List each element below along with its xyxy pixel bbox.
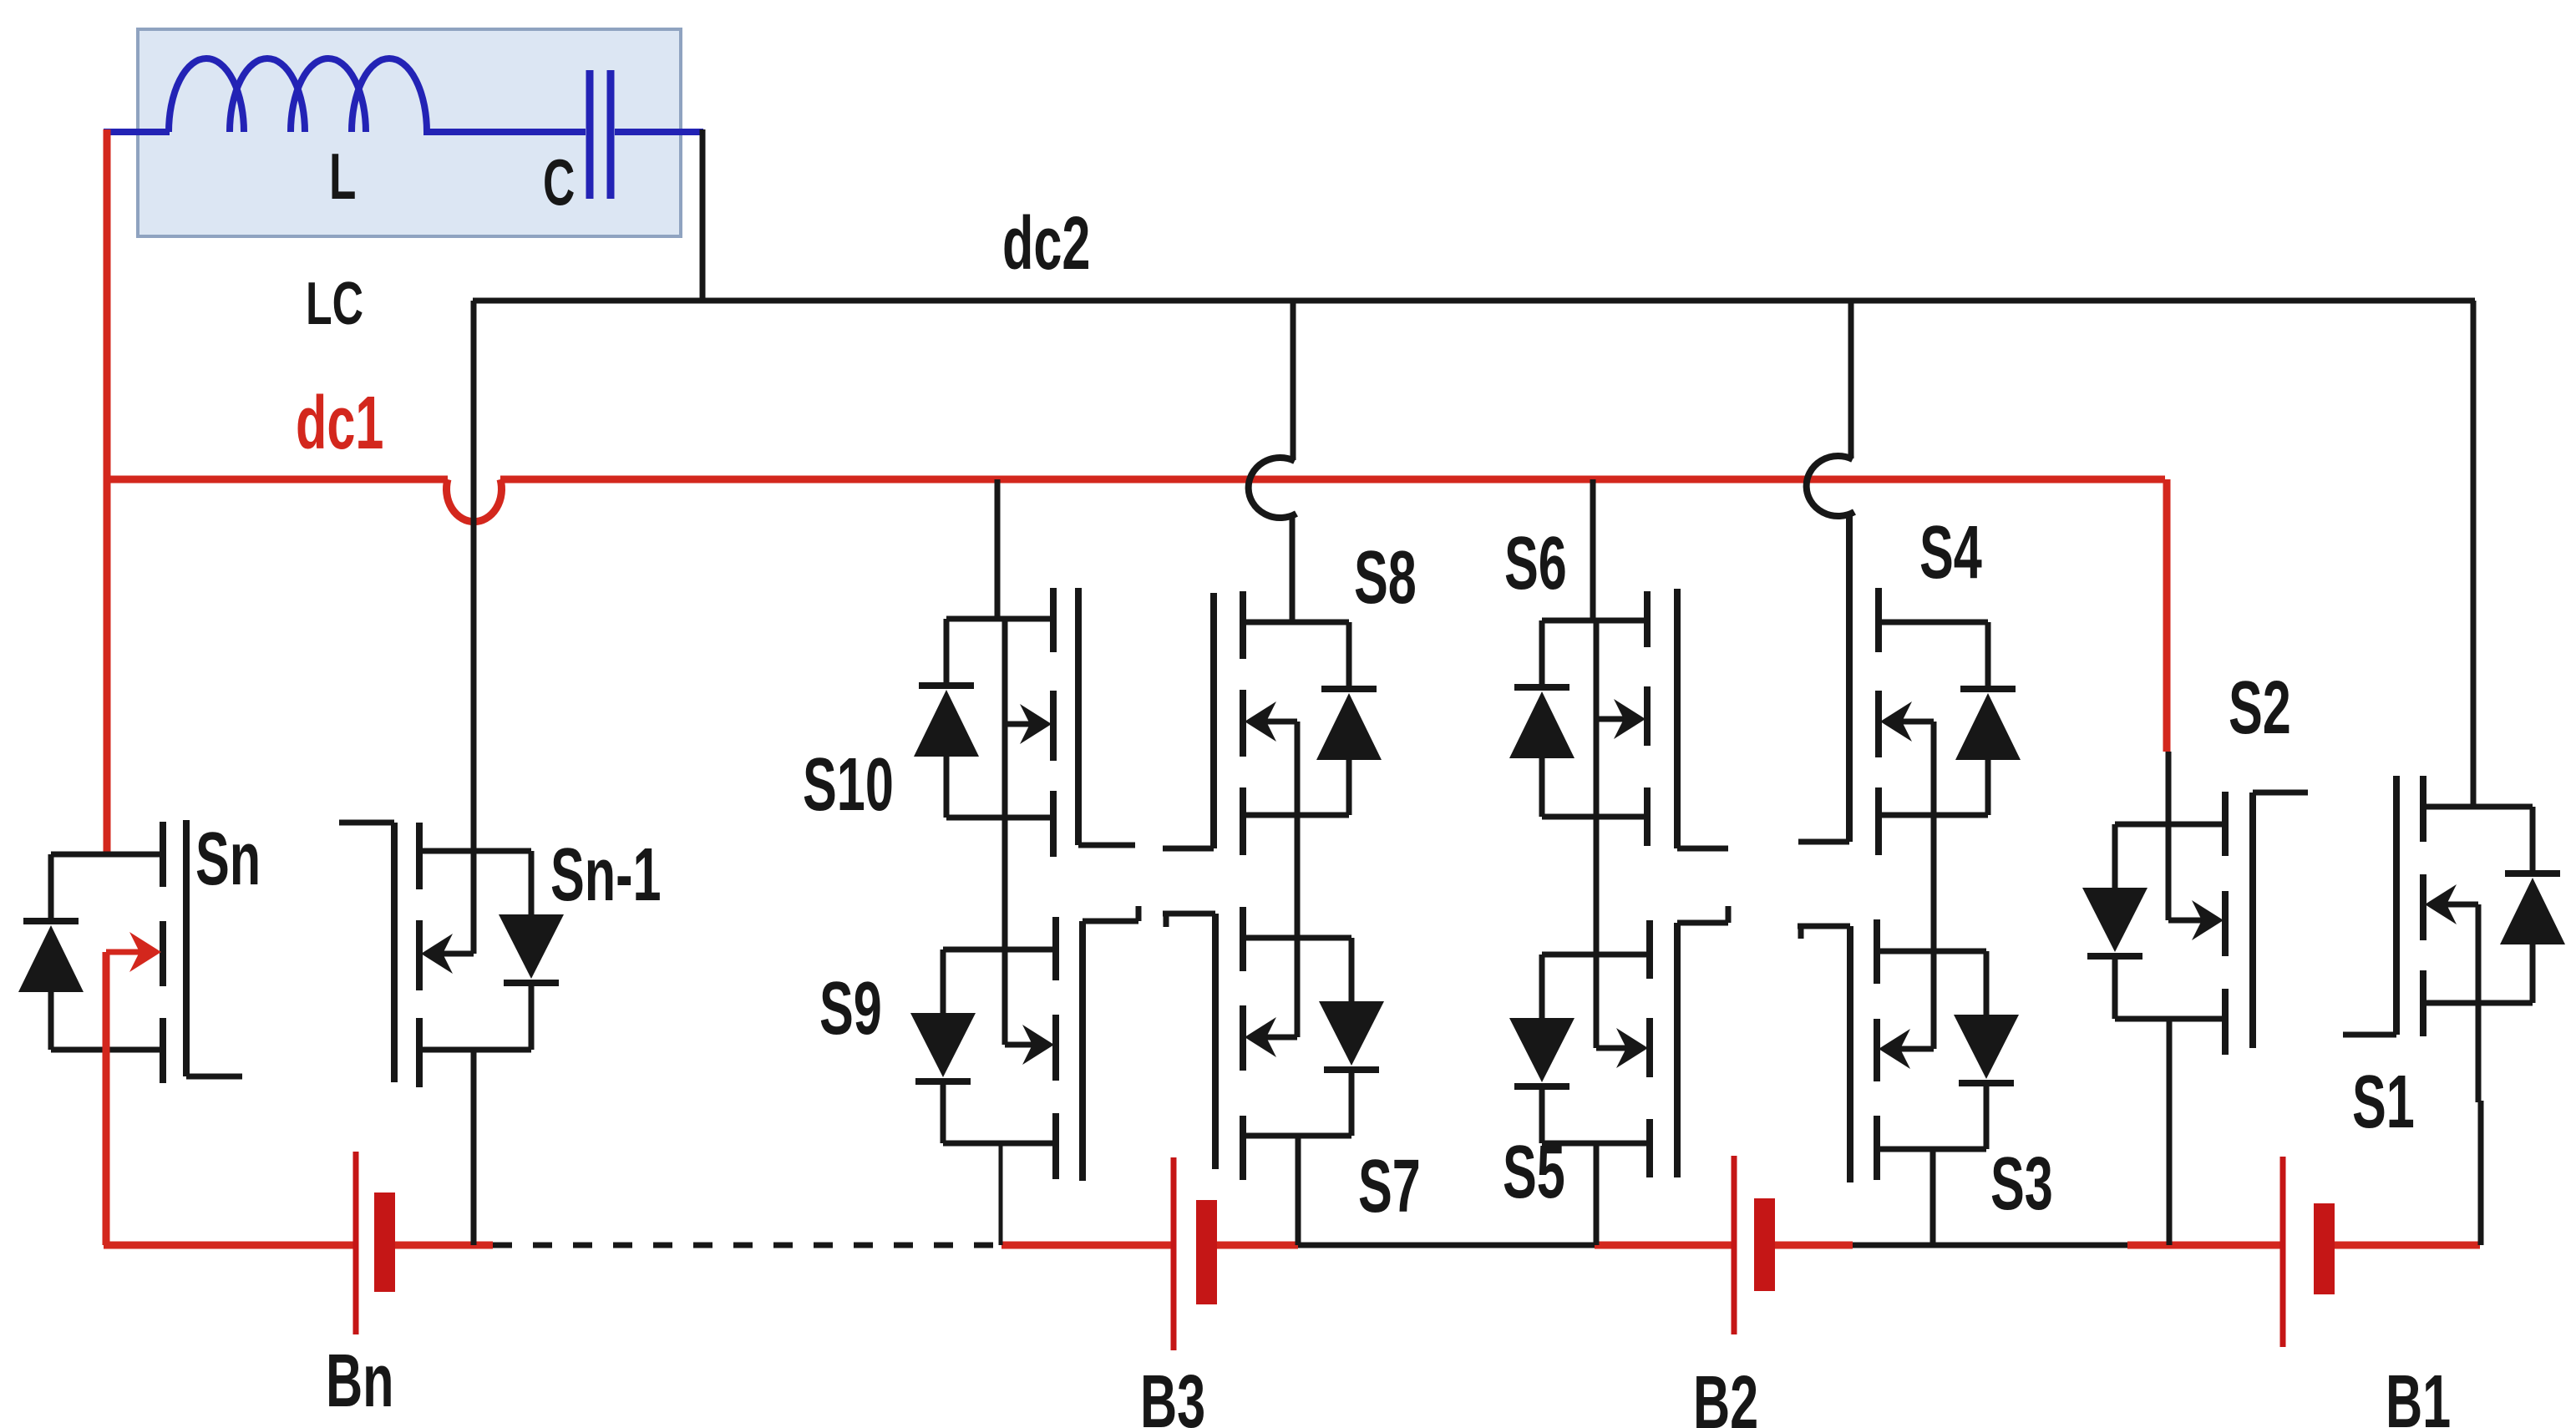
wire dc1 to S10 drain bbox=[995, 479, 1001, 619]
svg-text:C: C bbox=[543, 147, 575, 220]
battery B3 bbox=[1171, 1157, 1177, 1350]
transistor Sn bbox=[51, 852, 163, 858]
body diode of S5 bbox=[1539, 955, 1545, 1018]
wire S8 to S7 mid vertical bbox=[1295, 722, 1301, 1037]
inductor L bbox=[169, 58, 427, 132]
svg-text:B3: B3 bbox=[1140, 1360, 1205, 1428]
body diode of S10 bbox=[944, 619, 950, 686]
body diode of S3 bbox=[1984, 951, 1990, 1015]
svg-text:B2: B2 bbox=[1693, 1360, 1758, 1428]
wire dc1 to S6 drain bbox=[1590, 479, 1596, 620]
wire dc1 bus left bbox=[107, 476, 448, 484]
wire S5 gate lead tick bbox=[1726, 906, 1732, 923]
hop of S8 wire over dc1 bbox=[1249, 458, 1296, 518]
body diode of S7 bbox=[1349, 938, 1355, 1001]
wire bottom bus red 8 bbox=[2315, 1242, 2480, 1249]
svg-text:S2: S2 bbox=[2229, 666, 2291, 750]
wire dc1 bus right bbox=[500, 476, 2165, 484]
svg-text:LC: LC bbox=[306, 271, 363, 337]
wire Sn body red elbow down bbox=[103, 952, 110, 1245]
wire S9 gate lead tick bbox=[1136, 906, 1142, 921]
svg-text:dc2: dc2 bbox=[1002, 201, 1090, 286]
wire dc2 to S4 upper bbox=[1848, 301, 1854, 458]
wire dc1 hop over Sn-1 line bbox=[447, 479, 502, 522]
wire red left vertical (dc1 feed) bbox=[104, 129, 111, 857]
transistor S3 bbox=[1877, 949, 1986, 955]
wire blue right bbox=[615, 129, 703, 135]
wire bottom bus red 3 bbox=[1001, 1242, 1172, 1249]
svg-text:S1: S1 bbox=[2352, 1060, 2415, 1144]
body diode of Sn bbox=[48, 854, 54, 921]
wire S1 body to bus upper bbox=[2476, 904, 2482, 1102]
svg-text:S7: S7 bbox=[1358, 1144, 1421, 1228]
svg-text:S9: S9 bbox=[819, 966, 882, 1051]
wire S1 body to bus lower bbox=[2478, 1101, 2484, 1245]
wire bottom bus black 1 bbox=[1298, 1243, 1595, 1248]
svg-text:S10: S10 bbox=[803, 742, 894, 827]
wire from LC box to dc2 bus bbox=[700, 129, 706, 301]
transistor S7 bbox=[1243, 935, 1351, 941]
svg-text:S6: S6 bbox=[1504, 521, 1567, 605]
wire bottom bus red 5 bbox=[1595, 1242, 1732, 1249]
svg-text:B1: B1 bbox=[2386, 1360, 2451, 1428]
wire bottom bus red 4 bbox=[1196, 1242, 1298, 1249]
wire bottom bus red 2 bbox=[376, 1242, 493, 1249]
battery B1 bbox=[2280, 1157, 2286, 1347]
hop of S4 wire over dc1 bbox=[1807, 456, 1854, 516]
wire S2 source to bus bbox=[2167, 1019, 2173, 1245]
wire S9 source to bus bbox=[999, 1143, 1003, 1245]
wire S5 source to bus bbox=[1594, 1143, 1600, 1245]
wire blue left bbox=[104, 129, 170, 135]
wire dc2 to S8 drain upper bbox=[1291, 301, 1296, 460]
body diode of S4 bbox=[1985, 622, 1991, 689]
wire blue middle bbox=[423, 129, 586, 135]
wire Sn-1 source to bus bbox=[471, 1050, 477, 1245]
body diode of Sn-1 bbox=[529, 851, 535, 914]
wire dc2 to S8 drain lower bbox=[1290, 515, 1296, 622]
wire dc1 right drop red bbox=[2163, 479, 2171, 752]
wire bottom bus red 6 bbox=[1756, 1242, 1853, 1249]
body diode of S6 bbox=[1539, 620, 1545, 687]
wire S7 source to bus bbox=[1296, 1136, 1301, 1245]
transistor S10 bbox=[946, 616, 1053, 622]
wire S3 source to bus bbox=[1930, 1149, 1936, 1245]
svg-text:Sn-1: Sn-1 bbox=[550, 833, 662, 917]
body diode of S2 bbox=[2112, 824, 2118, 888]
transistor S4 bbox=[1879, 620, 1988, 625]
svg-text:S4: S4 bbox=[1919, 510, 1982, 595]
svg-text:S5: S5 bbox=[1503, 1130, 1565, 1214]
wire dc2 bus bbox=[473, 298, 2475, 304]
wire bottom bus dashed bbox=[493, 1243, 1001, 1248]
body diode of S8 bbox=[1346, 622, 1352, 689]
svg-text:Bn: Bn bbox=[326, 1339, 394, 1423]
transistor S8 bbox=[1243, 620, 1349, 625]
wire dc2-left vertical to Sn-1 bbox=[471, 301, 477, 954]
transistor S2 bbox=[2115, 822, 2225, 828]
transistor S5 bbox=[1542, 952, 1650, 958]
transistor Sn-1 bbox=[419, 848, 531, 854]
wire dc2 right drop to S1 bbox=[2471, 301, 2477, 807]
wire S6 to S5 mid vertical bbox=[1594, 620, 1600, 1048]
wire S10 to S9 mid vertical bbox=[1002, 619, 1008, 1045]
wire S7 gate lead tick bbox=[1164, 914, 1169, 927]
svg-text:Sn: Sn bbox=[195, 817, 261, 901]
wire S4 to S3 mid vertical bbox=[1931, 722, 1937, 1049]
wire bottom bus black 2 bbox=[1853, 1243, 2127, 1248]
svg-text:L: L bbox=[329, 141, 356, 214]
battery Bn bbox=[353, 1152, 359, 1334]
wire dc1 drop black to S2 bbox=[2166, 752, 2172, 920]
wire bottom bus red 1 bbox=[104, 1242, 354, 1249]
transistor S1 bbox=[2423, 804, 2533, 810]
svg-text:dc1: dc1 bbox=[296, 381, 383, 465]
transistor S9 bbox=[943, 947, 1056, 953]
battery B2 bbox=[1732, 1156, 1737, 1334]
capacitor C bbox=[586, 70, 594, 199]
svg-text:S3: S3 bbox=[1990, 1142, 2053, 1226]
LC filter box bbox=[138, 29, 681, 236]
wire bottom bus red 7 bbox=[2127, 1242, 2281, 1249]
transistor S6 bbox=[1542, 618, 1647, 624]
wire S3 gate lead tick bbox=[1798, 926, 1804, 939]
svg-text:S8: S8 bbox=[1354, 535, 1417, 620]
body diode of S9 bbox=[941, 949, 946, 1013]
body diode of S1 bbox=[2530, 807, 2536, 874]
